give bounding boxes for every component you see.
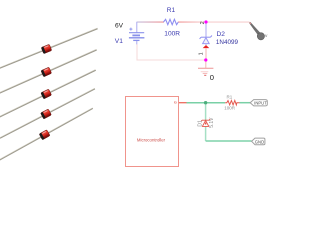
- svg-text:R1: R1: [227, 94, 233, 99]
- INPUT flag: [250, 100, 267, 106]
- junction: [204, 101, 207, 104]
- node 1 junction: [204, 58, 207, 61]
- svg-text:io: io: [174, 100, 177, 105]
- wire battery bottom: [137, 44, 205, 60]
- wire battery to R1: [137, 21, 165, 22]
- node 2 junction: [204, 20, 207, 23]
- svg-text:0: 0: [210, 73, 214, 82]
- wire D2 to node 1: [205, 48, 207, 59]
- svg-text:6V: 6V: [115, 23, 124, 30]
- svg-text:5.1V: 5.1V: [209, 117, 215, 128]
- photo diode 4: [0, 86, 96, 141]
- wire R1 to node 2: [178, 21, 205, 22]
- svg-text:1N4099: 1N4099: [216, 39, 239, 46]
- svg-text:R1: R1: [167, 7, 176, 14]
- svg-text:Microcontroller: Microcontroller: [137, 137, 166, 142]
- wire D1 to GND flag: [206, 140, 252, 142]
- svg-text:GND: GND: [255, 140, 264, 145]
- photo diode 5: [0, 105, 94, 163]
- svg-text:100R: 100R: [224, 106, 236, 111]
- zener diode D2: [200, 24, 212, 46]
- resistor R1: [164, 19, 179, 24]
- svg-text:1: 1: [199, 52, 205, 55]
- svg-text:D2: D2: [217, 31, 226, 38]
- zener diode D1: [201, 119, 210, 126]
- ground 0: [198, 62, 213, 76]
- microcontroller box: [126, 97, 179, 167]
- battery plus sign: [129, 28, 132, 31]
- current arrow: [203, 45, 210, 48]
- svg-text:V1: V1: [115, 38, 123, 45]
- photo diode 1: [0, 25, 99, 71]
- photo diode 3: [0, 67, 97, 120]
- svg-text:D1: D1: [198, 120, 204, 127]
- wire pin to junction to R1: [187, 102, 226, 104]
- battery V1: [129, 22, 145, 45]
- mcu pin: [179, 102, 187, 104]
- resistor R1 input: [225, 101, 239, 105]
- svg-text:100R: 100R: [164, 30, 180, 37]
- voltage probe: [249, 22, 265, 40]
- wire R1 to INPUT flag: [240, 102, 251, 104]
- wire junction down to D1 and GND: [205, 103, 207, 141]
- photo diode 2: [0, 47, 98, 97]
- GND flag: [252, 138, 265, 145]
- wire node 2 to probe: [206, 21, 250, 22]
- svg-text:INPUT: INPUT: [254, 101, 267, 106]
